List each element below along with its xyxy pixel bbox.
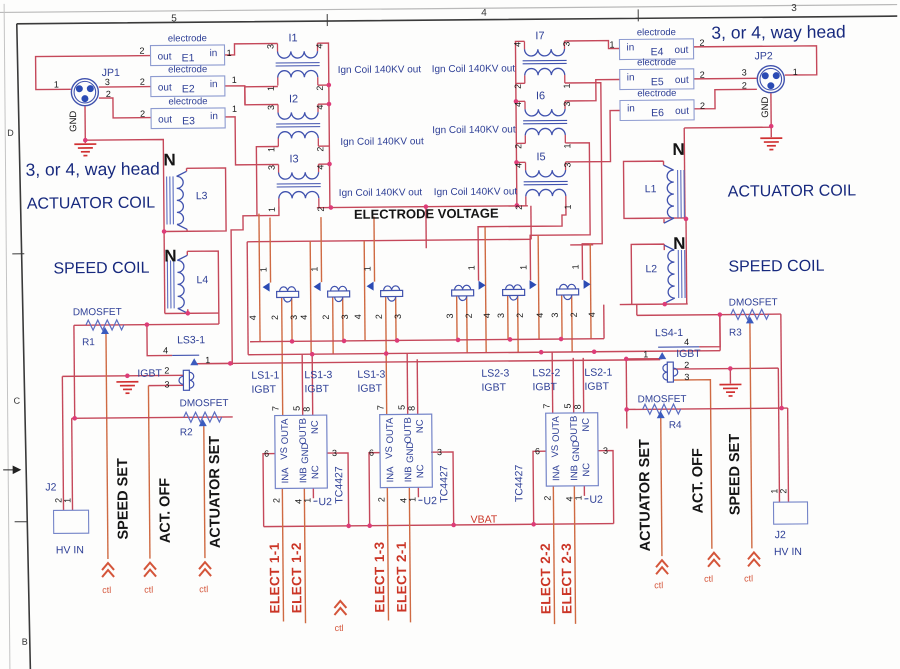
svg-text:6: 6	[264, 449, 269, 459]
svg-text:ACTUATOR COIL: ACTUATOR COIL	[27, 195, 156, 213]
svg-text:3: 3	[742, 67, 747, 77]
svg-text:3: 3	[496, 313, 506, 318]
svg-text:1: 1	[793, 67, 798, 77]
svg-text:INA: INA	[280, 467, 291, 484]
svg-text:IGBT: IGBT	[532, 381, 557, 393]
svg-text:LS2-2: LS2-2	[532, 367, 560, 379]
svg-text:2: 2	[374, 314, 384, 319]
svg-text:LS1-3: LS1-3	[357, 369, 385, 381]
svg-text:1: 1	[258, 267, 268, 272]
svg-text:1: 1	[609, 40, 614, 50]
svg-text:B: B	[22, 637, 28, 647]
svg-text:3: 3	[164, 379, 169, 389]
svg-text:R4: R4	[669, 420, 682, 431]
svg-text:GND: GND	[760, 97, 771, 118]
svg-text:2: 2	[321, 315, 331, 320]
svg-text:I2: I2	[289, 93, 298, 105]
svg-text:IGBT: IGBT	[357, 383, 382, 395]
svg-text:1: 1	[205, 355, 210, 365]
svg-text:out: out	[675, 75, 689, 86]
svg-text:ctl: ctl	[199, 584, 208, 594]
svg-text:1: 1	[309, 267, 319, 272]
svg-text:OUTB: OUTB	[569, 416, 580, 442]
svg-text:ACT. OFF: ACT. OFF	[690, 448, 707, 514]
svg-text:SPEED COIL: SPEED COIL	[728, 258, 824, 276]
svg-text:2: 2	[514, 205, 524, 210]
svg-text:4: 4	[163, 345, 168, 355]
svg-text:3: 3	[340, 314, 350, 319]
svg-text:electrode: electrode	[168, 33, 207, 44]
svg-text:U2: U2	[423, 495, 437, 507]
svg-text:3: 3	[562, 101, 572, 106]
svg-text:OUTA: OUTA	[551, 416, 562, 442]
svg-text:I7: I7	[535, 30, 544, 42]
svg-text:electrode: electrode	[168, 96, 207, 107]
svg-text:electrode: electrode	[637, 57, 676, 68]
svg-text:IGBT: IGBT	[481, 382, 506, 394]
svg-text:ctl: ctl	[335, 623, 344, 633]
svg-text:U2: U2	[318, 496, 332, 508]
svg-text:2: 2	[139, 46, 144, 56]
svg-text:L4: L4	[196, 274, 208, 286]
svg-text:ACTUATOR SET: ACTUATOR SET	[207, 436, 224, 549]
svg-text:2: 2	[271, 498, 281, 503]
svg-text:Ign Coil 140KV out: Ign Coil 140KV out	[340, 136, 424, 148]
svg-text:2: 2	[700, 70, 705, 80]
svg-text:1: 1	[573, 495, 583, 500]
svg-text:2: 2	[376, 497, 386, 502]
svg-text:4: 4	[513, 102, 523, 107]
svg-text:4: 4	[248, 315, 258, 320]
svg-text:out: out	[158, 114, 172, 125]
svg-text:I3: I3	[289, 153, 298, 165]
svg-text:DMOSFET: DMOSFET	[638, 394, 687, 405]
svg-text:4: 4	[514, 163, 524, 168]
svg-text:3: 3	[265, 44, 275, 49]
svg-text:R1: R1	[82, 337, 95, 348]
svg-text:3: 3	[105, 77, 110, 87]
svg-text:GND: GND	[300, 443, 311, 464]
svg-text:J2: J2	[45, 481, 56, 493]
svg-text:1: 1	[407, 497, 417, 502]
svg-text:1: 1	[518, 265, 528, 270]
svg-text:ACTUATOR SET: ACTUATOR SET	[637, 439, 654, 552]
svg-text:D: D	[7, 128, 14, 138]
svg-text:SPEED SET: SPEED SET	[115, 458, 132, 540]
svg-text:NC: NC	[310, 420, 321, 434]
svg-text:2: 2	[569, 312, 579, 317]
svg-text:Ign Coil 140KV out: Ign Coil 140KV out	[339, 187, 423, 199]
svg-text:N: N	[673, 234, 685, 253]
svg-text:NC: NC	[581, 463, 592, 477]
svg-text:INA: INA	[385, 466, 396, 483]
svg-text:1: 1	[266, 86, 276, 91]
svg-text:4: 4	[316, 165, 326, 170]
svg-text:HV IN: HV IN	[774, 546, 802, 558]
svg-text:2: 2	[270, 315, 280, 320]
svg-text:J2: J2	[775, 529, 786, 541]
svg-text:out: out	[675, 106, 689, 117]
svg-text:2: 2	[699, 38, 704, 48]
svg-text:8: 8	[407, 406, 417, 411]
svg-text:VS: VS	[279, 447, 290, 460]
svg-text:7: 7	[376, 405, 386, 410]
svg-text:LS1-3: LS1-3	[304, 369, 332, 381]
svg-text:L3: L3	[196, 190, 208, 202]
svg-text:1: 1	[62, 498, 72, 503]
svg-text:N: N	[672, 140, 684, 159]
svg-text:L1: L1	[645, 183, 657, 195]
svg-text:8: 8	[573, 404, 583, 409]
svg-text:R2: R2	[180, 427, 193, 438]
svg-text:E1: E1	[182, 52, 195, 64]
svg-text:4: 4	[314, 44, 324, 49]
svg-text:GND: GND	[571, 440, 582, 461]
svg-text:1: 1	[562, 83, 572, 88]
svg-text:TC4427: TC4427	[513, 465, 525, 503]
svg-text:1: 1	[643, 349, 648, 359]
svg-text:4: 4	[315, 105, 325, 110]
svg-text:4: 4	[684, 337, 689, 347]
svg-text:3, or 4, way head: 3, or 4, way head	[25, 159, 159, 180]
svg-text:3: 3	[267, 165, 277, 170]
svg-text:8: 8	[302, 407, 312, 412]
svg-text:OUTB: OUTB	[403, 417, 414, 443]
svg-text:SPEED COIL: SPEED COIL	[53, 260, 149, 278]
svg-text:ELECT 2-2: ELECT 2-2	[538, 543, 554, 614]
svg-text:HV IN: HV IN	[56, 544, 84, 556]
svg-text:LS4-1: LS4-1	[655, 327, 683, 339]
svg-text:INA: INA	[551, 464, 562, 481]
svg-text:6: 6	[369, 448, 374, 458]
svg-text:ELECT 2-1: ELECT 2-1	[394, 541, 410, 612]
svg-text:ctl: ctl	[744, 573, 753, 583]
svg-text:U2: U2	[589, 494, 603, 506]
svg-text:3: 3	[550, 313, 560, 318]
svg-text:IGBT: IGBT	[304, 383, 329, 395]
svg-text:out: out	[158, 51, 172, 62]
svg-text:1: 1	[54, 79, 59, 89]
svg-text:ELECT 1-1: ELECT 1-1	[267, 542, 283, 613]
svg-text:ctl: ctl	[704, 574, 713, 584]
svg-text:1: 1	[232, 75, 237, 85]
svg-text:2: 2	[140, 109, 145, 119]
svg-text:3: 3	[445, 313, 455, 318]
svg-text:E6: E6	[651, 107, 664, 119]
svg-text:Ign Coil 140KV out: Ign Coil 140KV out	[434, 186, 518, 198]
svg-text:4: 4	[299, 315, 309, 320]
svg-text:7: 7	[542, 404, 552, 409]
svg-text:4: 4	[481, 8, 487, 19]
svg-text:1: 1	[362, 266, 372, 271]
svg-text:ACTUATOR COIL: ACTUATOR COIL	[728, 182, 857, 200]
svg-text:VS: VS	[550, 445, 561, 458]
svg-text:I5: I5	[536, 151, 545, 163]
svg-text:3: 3	[603, 446, 608, 456]
svg-text:2: 2	[106, 89, 111, 99]
svg-text:2: 2	[684, 360, 689, 370]
svg-text:3: 3	[437, 447, 442, 457]
svg-text:VBAT: VBAT	[471, 514, 498, 526]
svg-text:2: 2	[315, 86, 325, 91]
svg-text:5: 5	[563, 403, 573, 408]
svg-text:2: 2	[513, 84, 523, 89]
svg-text:GND: GND	[68, 111, 79, 132]
svg-text:3: 3	[332, 448, 337, 458]
svg-text:N: N	[163, 150, 175, 169]
svg-text:NC: NC	[310, 465, 321, 479]
svg-text:INB: INB	[298, 467, 309, 483]
svg-text:out: out	[674, 45, 688, 56]
svg-text:3: 3	[289, 315, 299, 320]
svg-text:2: 2	[515, 313, 525, 318]
svg-text:3, or 4, way head: 3, or 4, way head	[711, 22, 845, 43]
svg-text:electrode: electrode	[168, 64, 207, 75]
svg-text:LS1-1: LS1-1	[251, 369, 279, 381]
svg-text:4: 4	[587, 312, 597, 317]
svg-text:1: 1	[267, 207, 277, 212]
svg-text:ACT. OFF: ACT. OFF	[157, 478, 174, 544]
svg-text:3: 3	[266, 105, 276, 110]
svg-text:in: in	[627, 103, 635, 114]
svg-text:IGBT: IGBT	[251, 384, 276, 396]
svg-text:NC: NC	[415, 464, 426, 478]
svg-text:JP2: JP2	[755, 50, 773, 62]
svg-text:NC: NC	[581, 418, 592, 432]
svg-text:E2: E2	[182, 83, 195, 95]
svg-text:OUTA: OUTA	[385, 417, 396, 443]
svg-text:2: 2	[315, 147, 325, 152]
svg-text:LS2-1: LS2-1	[584, 367, 612, 379]
svg-text:NC: NC	[415, 419, 426, 433]
svg-text:in: in	[210, 79, 218, 90]
svg-text:TC4427: TC4427	[333, 466, 345, 504]
svg-text:2: 2	[140, 77, 145, 87]
svg-text:DMOSFET: DMOSFET	[729, 297, 778, 308]
svg-text:1: 1	[562, 143, 572, 148]
svg-text:6: 6	[535, 446, 540, 456]
svg-text:3: 3	[563, 162, 573, 167]
svg-text:2: 2	[778, 489, 788, 494]
svg-text:5: 5	[397, 405, 407, 410]
svg-text:1: 1	[466, 265, 476, 270]
svg-text:ctl: ctl	[144, 585, 153, 595]
svg-text:INB: INB	[403, 466, 414, 482]
svg-text:2: 2	[700, 101, 705, 111]
svg-text:VS: VS	[384, 446, 395, 459]
svg-text:OUTB: OUTB	[298, 418, 309, 444]
svg-text:3: 3	[393, 314, 403, 319]
svg-text:Ign Coil 140KV out: Ign Coil 140KV out	[432, 124, 516, 136]
svg-text:IGBT: IGBT	[584, 381, 609, 393]
svg-text:1: 1	[302, 498, 312, 503]
svg-text:electrode: electrode	[637, 27, 676, 38]
svg-text:I6: I6	[536, 90, 545, 102]
svg-text:I1: I1	[288, 32, 297, 44]
svg-text:C: C	[14, 396, 21, 406]
svg-text:2: 2	[316, 207, 326, 212]
svg-text:2: 2	[742, 80, 747, 90]
svg-text:LS2-3: LS2-3	[481, 367, 509, 379]
svg-text:2: 2	[513, 144, 523, 149]
svg-text:E3: E3	[182, 115, 195, 127]
svg-text:1: 1	[266, 147, 276, 152]
svg-text:GND: GND	[405, 442, 416, 463]
svg-text:7: 7	[271, 406, 281, 411]
svg-text:DMOSFET: DMOSFET	[180, 398, 229, 409]
svg-text:SPEED SET: SPEED SET	[727, 434, 744, 516]
svg-text:E5: E5	[651, 76, 664, 88]
svg-text:1: 1	[563, 204, 573, 209]
svg-text:electrode: electrode	[637, 88, 676, 99]
svg-text:1: 1	[232, 104, 237, 114]
svg-text:out: out	[158, 82, 172, 93]
svg-text:1: 1	[570, 264, 580, 269]
svg-text:in: in	[210, 111, 218, 122]
svg-text:IGBT: IGBT	[676, 348, 701, 360]
svg-text:ELECT 1-2: ELECT 1-2	[289, 542, 305, 613]
svg-text:2: 2	[542, 496, 552, 501]
svg-text:ELECT 1-3: ELECT 1-3	[372, 541, 388, 612]
svg-text:OUTA: OUTA	[280, 418, 291, 444]
svg-text:L2: L2	[645, 263, 657, 275]
svg-text:in: in	[626, 42, 634, 53]
svg-text:ELECT 2-3: ELECT 2-3	[559, 543, 575, 614]
svg-text:DMOSFET: DMOSFET	[73, 307, 122, 318]
svg-text:5: 5	[292, 406, 302, 411]
svg-text:ctl: ctl	[102, 585, 111, 595]
svg-text:in: in	[627, 72, 635, 83]
svg-text:2: 2	[164, 365, 169, 375]
svg-text:3: 3	[561, 41, 571, 46]
svg-text:1: 1	[226, 48, 231, 58]
svg-text:2: 2	[464, 313, 474, 318]
svg-text:5: 5	[171, 13, 177, 24]
svg-text:4: 4	[353, 314, 363, 319]
svg-text:R3: R3	[729, 327, 742, 338]
svg-text:IGBT: IGBT	[137, 368, 162, 380]
svg-text:N: N	[164, 246, 176, 265]
svg-text:3: 3	[791, 3, 797, 14]
svg-text:4: 4	[535, 313, 545, 318]
svg-text:ELECTRODE VOLTAGE: ELECTRODE VOLTAGE	[354, 206, 499, 222]
svg-text:4: 4	[482, 313, 492, 318]
svg-text:3: 3	[684, 372, 689, 382]
svg-text:TC4427: TC4427	[438, 465, 450, 503]
svg-text:LS3-1: LS3-1	[177, 334, 205, 346]
svg-text:ctl: ctl	[654, 580, 663, 590]
svg-text:Ign Coil 140KV out: Ign Coil 140KV out	[338, 64, 422, 76]
svg-text:INB: INB	[569, 465, 580, 481]
svg-text:4: 4	[512, 42, 522, 47]
svg-text:Ign Coil 140KV out: Ign Coil 140KV out	[432, 63, 516, 75]
svg-text:in: in	[209, 48, 217, 59]
